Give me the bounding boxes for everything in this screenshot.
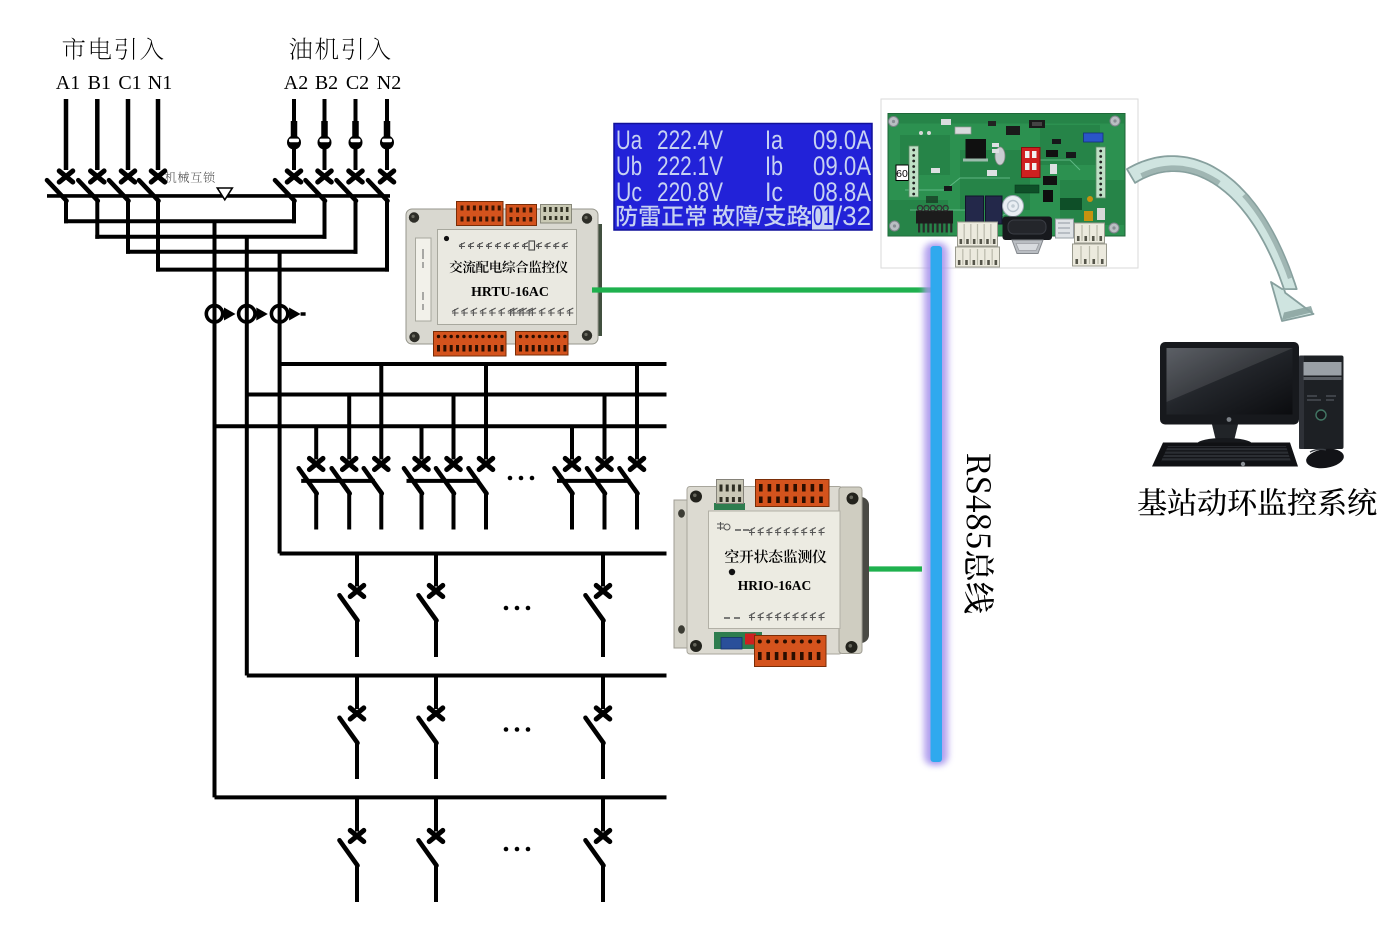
svg-text:N1: N1: [148, 72, 172, 94]
svg-text:Uc: Uc: [616, 177, 642, 207]
svg-text:Ic: Ic: [765, 177, 783, 207]
svg-text:A1: A1: [56, 72, 80, 94]
svg-text:C1: C1: [118, 72, 141, 94]
svg-text:01: 01: [813, 201, 833, 231]
svg-text:B1: B1: [88, 72, 111, 94]
svg-text:HRIO-16AC: HRIO-16AC: [738, 578, 812, 593]
svg-text:HRTU-16AC: HRTU-16AC: [471, 284, 549, 299]
svg-text:A2: A2: [284, 72, 308, 94]
svg-text:220.8V: 220.8V: [657, 177, 723, 207]
svg-text:/: /: [757, 203, 764, 231]
svg-text:/32: /32: [835, 201, 871, 231]
svg-text:B2: B2: [315, 72, 338, 94]
svg-text:60: 60: [896, 168, 908, 180]
svg-text:N2: N2: [377, 72, 401, 94]
svg-text:C2: C2: [346, 72, 369, 94]
